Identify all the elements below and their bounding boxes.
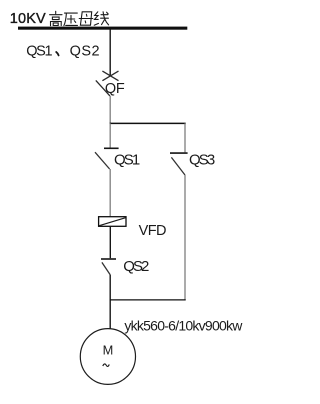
svg-text:QS1: QS1: [114, 152, 140, 169]
svg-text:QF: QF: [105, 81, 125, 97]
wire: busbar down to breaker QF: [109, 29, 111, 75]
label 压 (title hanzi 2): [64, 13, 78, 26]
disconnect QS1 blade: [95, 152, 110, 169]
motor M circle: [80, 329, 135, 385]
disconnect QS1 tick: [104, 147, 119, 149]
VFD converter box: [99, 217, 126, 227]
disconnect QS2 blade: [102, 262, 110, 274]
svg-text:M: M: [103, 343, 114, 358]
breaker QF contact cross: [102, 71, 118, 81]
label ~ (ac wave): [103, 364, 109, 366]
label 高 (title hanzi 1): [50, 11, 62, 25]
disconnect QS2 tick: [101, 258, 116, 260]
svg-text:VFD: VFD: [139, 223, 167, 239]
wire: QS3 to bottom junction (grey): [184, 175, 186, 300]
wire: branch to QS1 tick (grey): [109, 123, 111, 147]
svg-text:QS2: QS2: [70, 44, 100, 60]
label 线 (title hanzi 4): [94, 12, 108, 25]
svg-text:QS2: QS2: [123, 258, 149, 275]
disconnect QS3 blade: [171, 157, 185, 175]
wire: VFD to QS2: [109, 226, 111, 258]
svg-text:ykk560-6/10kv900kw: ykk560-6/10kv900kw: [124, 318, 243, 334]
wire: bypass vertical upper, branch to QS3 (grey): [184, 123, 186, 152]
svg-text:QS3: QS3: [189, 152, 215, 169]
label 、 (ideographic comma): [56, 52, 58, 55]
wire: QF to branch node (grey): [109, 96, 111, 124]
wire: bottom junction horizontal: [110, 299, 186, 301]
wire: QS2 to motor (through junction): [109, 275, 111, 329]
VFD box diagonal: [99, 218, 125, 226]
wire: QS1 to VFD (grey): [109, 169, 111, 216]
label 母 (title hanzi 3): [79, 12, 93, 25]
disconnect QS3 tick: [170, 152, 188, 154]
breaker QF blade: [96, 80, 110, 96]
svg-text:10KV: 10KV: [10, 11, 46, 27]
busbar 10KV: [18, 27, 187, 30]
wire: branch node horizontal to bypass: [110, 122, 186, 124]
svg-text:QS1: QS1: [26, 44, 52, 60]
